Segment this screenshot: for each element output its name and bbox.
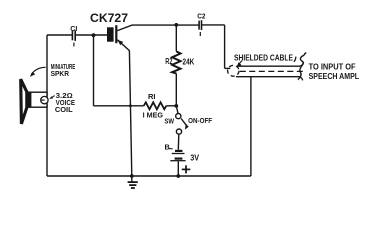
- label B with pointer: [165, 143, 173, 152]
- wire: left vertical (speaker branch lower): [46, 104, 48, 176]
- speaker horn (cone): [21, 79, 27, 124]
- node: emitter/ground junction dot: [130, 174, 134, 178]
- label 3.2 ohm VOICE COIL: [55, 93, 75, 114]
- transistor emitter lead: [117, 40, 129, 51]
- shield open end (dashed ellipse): [228, 65, 239, 76]
- transistor collector lead: [117, 25, 132, 31]
- node: battery/rail junction dot: [176, 174, 180, 178]
- label MINIATURE SPKR: [51, 62, 76, 78]
- wire: stub into shield opening: [225, 67, 231, 69]
- wire: R1 right to junction: [166, 105, 176, 107]
- resistor R2: [172, 25, 180, 106]
- shielded cable center conductor (dashed): [240, 70, 303, 72]
- battery lead to rail: [177, 161, 179, 176]
- shielded cable shield top line: [237, 62, 304, 66]
- wire: right corner down to cable center: [224, 25, 226, 69]
- node: top rail / R2 junction dot: [174, 23, 178, 27]
- svg-text:COIL: COIL: [55, 107, 74, 114]
- wire: bottom ground rail: [47, 175, 251, 177]
- svg-text:SW: SW: [164, 116, 174, 125]
- wire: emitter down to ground rail: [129, 51, 131, 176]
- voice coil inner dash: [41, 99, 44, 101]
- speaker magnet bar: [27, 92, 32, 107]
- switch SW bottom contact: [176, 129, 181, 134]
- svg-text:3V: 3V: [190, 153, 199, 163]
- svg-text:I MEG: I MEG: [143, 110, 164, 119]
- switch SW top contact: [176, 114, 181, 119]
- capacitor C1: [72, 30, 75, 46]
- wire: left vertical (speaker branch upper): [46, 35, 48, 97]
- svg-text:CI: CI: [70, 24, 77, 33]
- wire: top-left horizontal from left riser to C1: [47, 34, 72, 36]
- node: base / R1 junction dot: [92, 33, 96, 37]
- shielded cable shield bottom line: [236, 77, 303, 81]
- svg-text:RI: RI: [148, 92, 156, 101]
- transistor emitter arrowhead (PNP): [118, 40, 124, 45]
- svg-text:C2: C2: [197, 12, 205, 21]
- pointer arrow from label to shield: [237, 61, 242, 68]
- wire: R1 left horizontal: [94, 105, 144, 107]
- capacitor C2: [199, 20, 201, 36]
- svg-text:ON-OFF: ON-OFF: [188, 116, 212, 125]
- battery B lead from switch: [177, 134, 180, 150]
- pointer from 3.2 ohm label to voice coil: [51, 96, 54, 98]
- resistor R1 riser from base: [93, 35, 95, 106]
- label + polarity: [182, 165, 191, 173]
- node: crossover blob: [129, 104, 132, 107]
- switch SW blade: [181, 119, 187, 126]
- svg-text:24K: 24K: [183, 56, 195, 66]
- switch SW blade arrowhead: [185, 124, 189, 130]
- svg-text:SPEECH AMPL: SPEECH AMPL: [309, 71, 360, 81]
- svg-text:B: B: [165, 143, 170, 152]
- svg-text:R2: R2: [165, 56, 172, 66]
- wire: C1 to transistor base: [76, 34, 107, 36]
- svg-text:CK727: CK727: [90, 11, 128, 25]
- comma pointer after CABLE label: [294, 57, 296, 62]
- switch SW lead: [176, 106, 178, 114]
- wire: top rail collector to C2: [132, 24, 199, 26]
- wire: right vertical shield ground: [250, 77, 252, 176]
- arrow: label to speaker: [30, 67, 46, 77]
- node: R1/R2/switch junction dot: [174, 104, 178, 108]
- speaker frame box: [27, 92, 47, 107]
- voice coil circle: [41, 96, 48, 103]
- wire: C2 to right corner: [202, 24, 225, 26]
- resistor R1: [144, 102, 167, 109]
- svg-text:SHIELDED CABLE: SHIELDED CABLE: [234, 52, 293, 62]
- ground symbol: [128, 176, 138, 188]
- svg-text:SPKR: SPKR: [51, 69, 70, 78]
- brace squiggle at cable end: [298, 53, 306, 80]
- transistor Q1 CK727 body bar: [107, 25, 117, 43]
- battery B plates: [170, 151, 185, 161]
